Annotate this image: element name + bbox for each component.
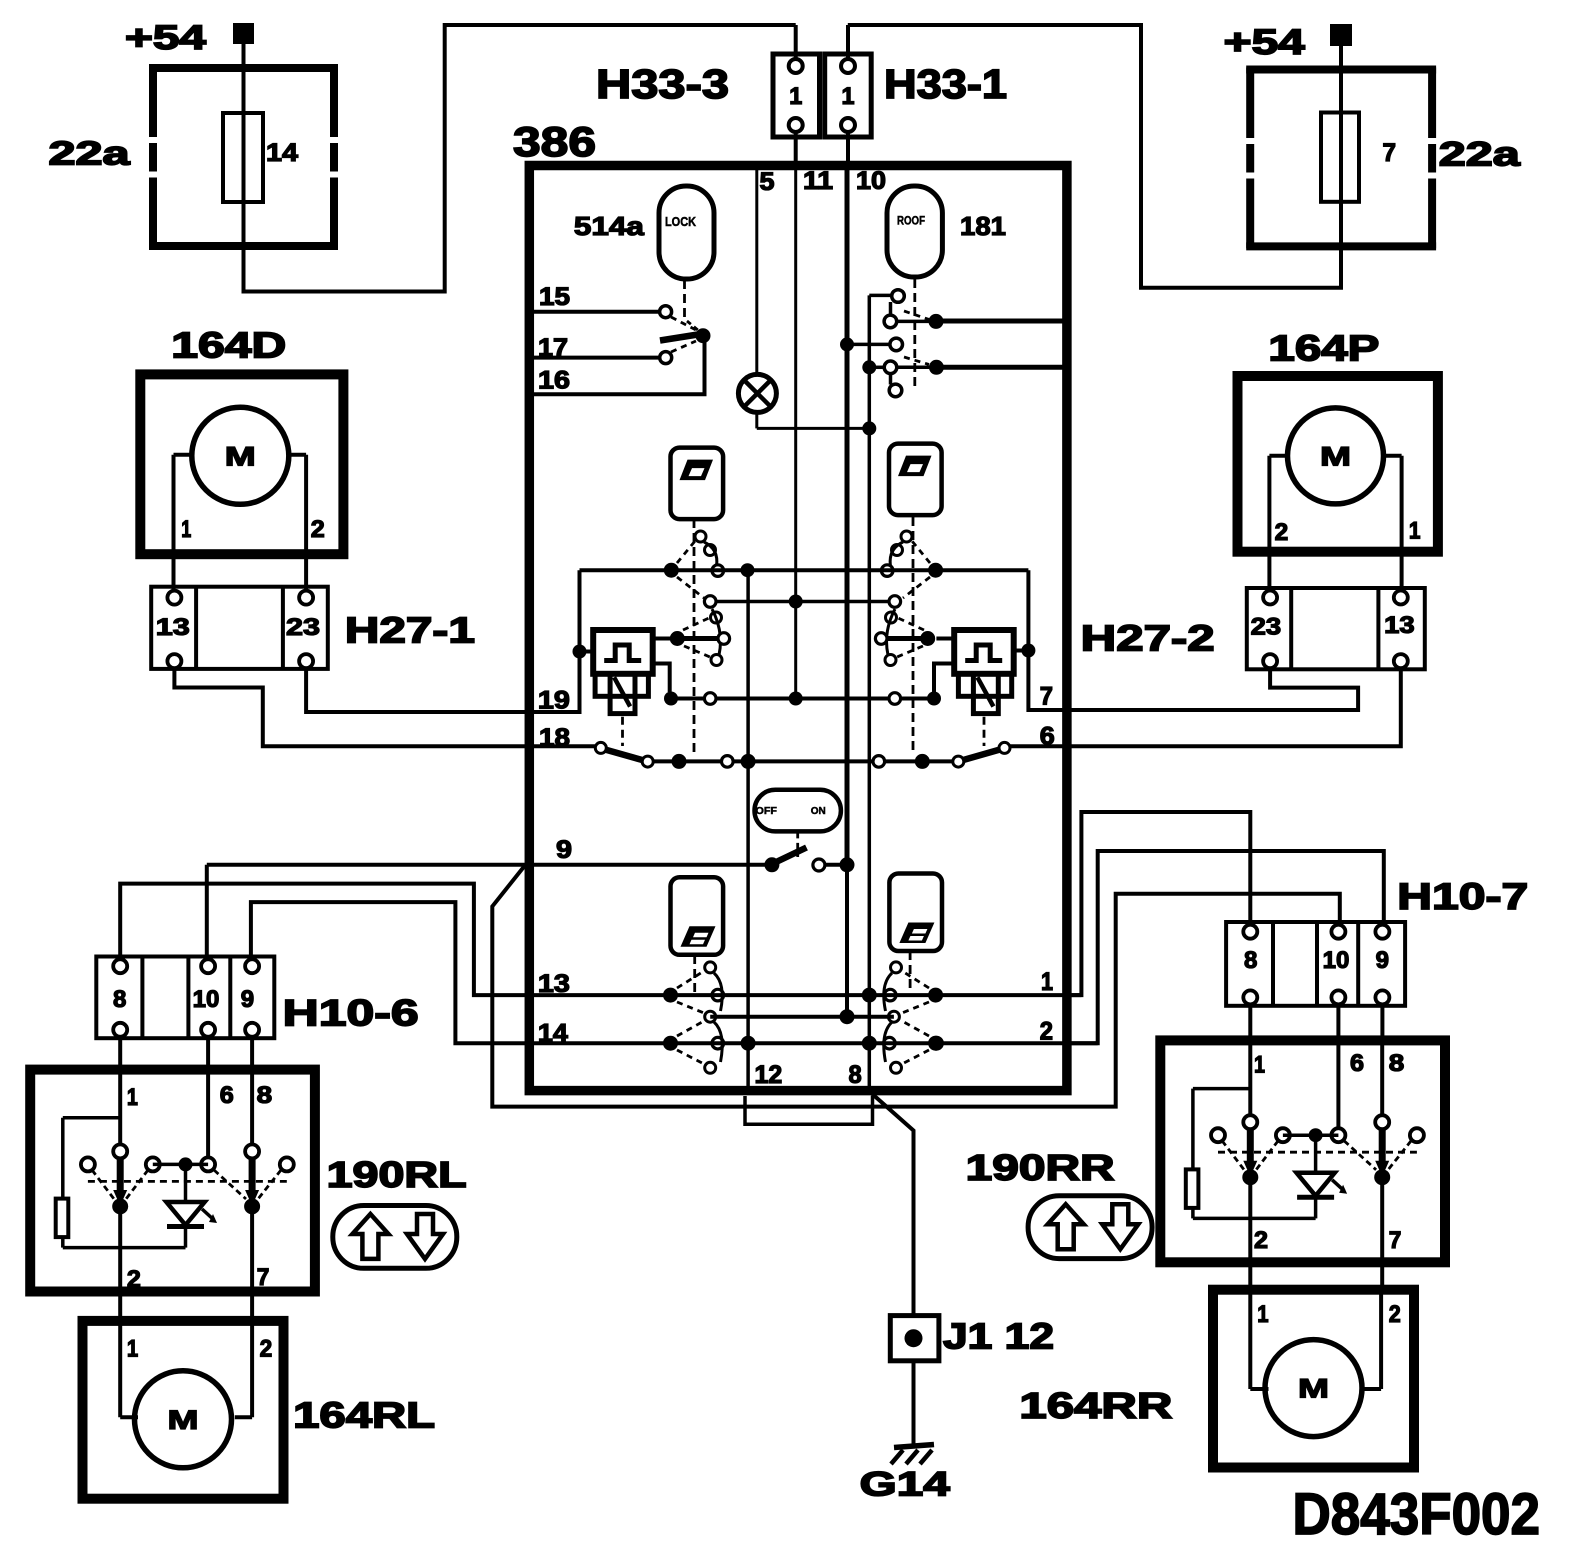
svg-text:22a: 22a xyxy=(49,135,131,172)
svg-text:7: 7 xyxy=(1383,139,1397,167)
svg-text:164RL: 164RL xyxy=(293,1395,435,1436)
svg-text:M: M xyxy=(225,441,256,471)
svg-text:11: 11 xyxy=(803,167,833,195)
svg-text:514a: 514a xyxy=(574,211,645,241)
svg-text:M: M xyxy=(1298,1374,1329,1404)
svg-text:13: 13 xyxy=(1384,612,1415,639)
svg-text:164D: 164D xyxy=(171,324,286,365)
svg-text:M: M xyxy=(168,1405,199,1435)
svg-text:6: 6 xyxy=(220,1082,234,1109)
svg-text:2: 2 xyxy=(311,516,325,543)
svg-text:386: 386 xyxy=(513,118,596,165)
svg-text:G14: G14 xyxy=(860,1466,950,1504)
svg-text:H27-1: H27-1 xyxy=(345,610,475,651)
svg-text:+54: +54 xyxy=(125,19,206,57)
svg-text:8: 8 xyxy=(1244,947,1257,974)
svg-text:M: M xyxy=(1320,441,1351,471)
svg-text:1: 1 xyxy=(127,1335,138,1362)
svg-text:1: 1 xyxy=(1409,518,1421,545)
svg-text:2: 2 xyxy=(127,1266,141,1293)
svg-text:14: 14 xyxy=(266,139,298,167)
svg-text:9: 9 xyxy=(241,986,254,1013)
svg-text:5: 5 xyxy=(760,168,775,196)
svg-text:9: 9 xyxy=(1376,947,1389,974)
svg-text:13: 13 xyxy=(156,614,190,641)
svg-text:H33-3: H33-3 xyxy=(596,61,729,107)
svg-text:2: 2 xyxy=(1254,1227,1268,1254)
svg-text:10: 10 xyxy=(1323,947,1350,974)
svg-text:15: 15 xyxy=(539,283,570,311)
svg-text:J1 12: J1 12 xyxy=(943,1316,1054,1357)
svg-text:H33-1: H33-1 xyxy=(884,61,1007,107)
svg-text:1: 1 xyxy=(1257,1301,1268,1328)
svg-text:7: 7 xyxy=(1040,683,1053,711)
svg-text:6: 6 xyxy=(1350,1050,1364,1077)
svg-text:12: 12 xyxy=(755,1061,783,1089)
svg-text:2: 2 xyxy=(260,1335,273,1362)
svg-text:7: 7 xyxy=(1389,1227,1402,1254)
svg-text:ON: ON xyxy=(811,805,826,817)
svg-text:22a: 22a xyxy=(1439,135,1522,173)
svg-text:2: 2 xyxy=(1389,1301,1401,1328)
svg-text:9: 9 xyxy=(556,836,572,864)
svg-text:1: 1 xyxy=(1254,1052,1265,1079)
svg-text:ROOF: ROOF xyxy=(897,216,925,228)
svg-text:2: 2 xyxy=(1275,519,1289,546)
svg-text:19: 19 xyxy=(538,686,570,714)
svg-text:23: 23 xyxy=(286,614,320,641)
svg-text:1: 1 xyxy=(842,83,855,110)
svg-text:8: 8 xyxy=(257,1082,273,1109)
svg-text:8: 8 xyxy=(113,986,126,1013)
svg-text:H10-7: H10-7 xyxy=(1397,876,1528,917)
svg-text:D843F002: D843F002 xyxy=(1293,1482,1541,1547)
svg-text:23: 23 xyxy=(1251,613,1282,640)
svg-text:7: 7 xyxy=(257,1264,270,1291)
svg-text:LOCK: LOCK xyxy=(665,215,696,229)
svg-text:8: 8 xyxy=(849,1061,862,1089)
svg-text:1: 1 xyxy=(1041,968,1053,996)
svg-text:10: 10 xyxy=(856,167,886,195)
svg-text:1: 1 xyxy=(181,516,191,543)
svg-text:190RR: 190RR xyxy=(966,1147,1115,1188)
svg-text:H27-2: H27-2 xyxy=(1081,617,1215,658)
svg-text:164P: 164P xyxy=(1268,328,1379,369)
svg-text:OFF: OFF xyxy=(756,805,778,817)
svg-text:1: 1 xyxy=(127,1084,138,1111)
svg-text:1: 1 xyxy=(789,83,802,110)
svg-text:8: 8 xyxy=(1389,1050,1405,1077)
svg-text:H10-6: H10-6 xyxy=(283,993,419,1034)
svg-text:+54: +54 xyxy=(1224,23,1306,62)
svg-text:190RL: 190RL xyxy=(327,1154,467,1195)
svg-text:10: 10 xyxy=(193,986,220,1013)
svg-text:181: 181 xyxy=(960,211,1006,241)
svg-text:164RR: 164RR xyxy=(1019,1385,1172,1426)
svg-text:16: 16 xyxy=(538,367,570,395)
